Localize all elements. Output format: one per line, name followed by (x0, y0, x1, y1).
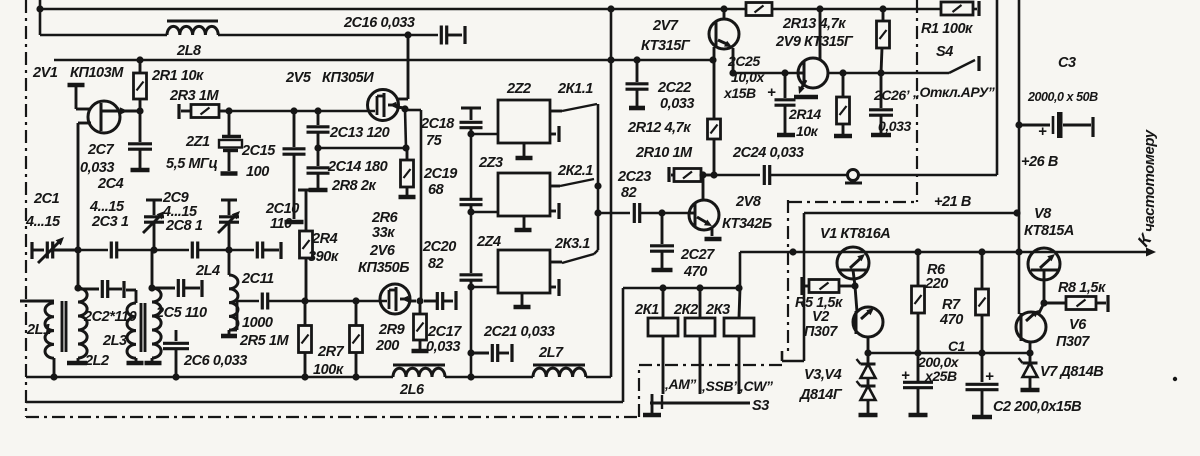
svg-text:2С23: 2С23 (617, 169, 651, 185)
label 2C7 value (80, 160, 114, 176)
connector jack AGC test point (845, 170, 862, 184)
wire antenna input line (32, 242, 44, 259)
capacitor C1 electrolytic (901, 353, 933, 415)
label V8 (1034, 206, 1052, 222)
wire relay return line y402 (26, 288, 623, 402)
svg-text:5,5 МГц: 5,5 МГц (166, 156, 217, 172)
svg-text:2С7: 2С7 (87, 142, 115, 158)
capacitor C3 electrolytic (1019, 112, 1093, 140)
capacitor 2C7 (128, 111, 152, 170)
label 2K2 (673, 302, 698, 318)
label 2C10 (265, 201, 299, 217)
label K (to meter) (1134, 230, 1156, 251)
label +26V (1021, 154, 1058, 170)
capacitor C2 electrolytic (966, 353, 999, 417)
svg-text:2К3.1: 2К3.1 (554, 236, 590, 252)
label D814G (798, 387, 843, 403)
label 2C16 0,033 (343, 15, 415, 31)
label 2C20 value (428, 256, 444, 272)
resistor R1 100k (941, 1, 979, 16)
svg-text:+21 В: +21 В (934, 194, 971, 210)
transformer core 1 (62, 301, 66, 352)
svg-text:2С27: 2С27 (680, 247, 715, 263)
capacitor 2C6 (163, 330, 189, 377)
junction dots +26V bus (1013, 121, 1022, 216)
wire chain 1-2 (470, 134, 473, 198)
label 2C9 (162, 190, 189, 206)
crystal 2Z1 (219, 114, 242, 174)
label 2C22 (657, 80, 691, 96)
label 2R4 (311, 231, 338, 247)
wire +26V rail (740, 251, 1152, 254)
resistor R8 (1044, 295, 1108, 312)
svg-text:2С4: 2С4 (97, 176, 124, 192)
label 2C26 (873, 87, 911, 103)
svg-text:2К3: 2К3 (705, 302, 730, 318)
wire choke feed bus (26, 376, 611, 379)
label +21V (934, 194, 971, 210)
label 2R6 (371, 210, 399, 226)
wire mixer input line y301 (237, 300, 259, 303)
inductor 2L6 (393, 365, 445, 377)
svg-text:„АМ”: „АМ” (661, 376, 696, 392)
svg-text:2R10 1М: 2R10 1М (635, 145, 693, 161)
label 2R7 (317, 344, 345, 360)
svg-text:П307: П307 (1056, 334, 1090, 350)
label 2K1 (634, 302, 659, 318)
wire IF output line y213 (598, 212, 630, 215)
resistor 2R5 (299, 301, 312, 377)
svg-text:1000: 1000 (242, 315, 273, 331)
svg-text:2К1: 2К1 (634, 302, 659, 318)
wire AGC line y73 left (733, 72, 798, 75)
junction dot first tank (150, 246, 157, 253)
svg-text:C2 200,0х15В: C2 200,0х15В (993, 399, 1081, 415)
wire 2L1 input stub (20, 300, 54, 303)
capacitor 2C9 (192, 242, 197, 259)
label 2C14 180 (327, 159, 388, 175)
resistor 2R3 (179, 104, 229, 119)
switch S4 (949, 56, 979, 73)
svg-text:100к: 100к (313, 362, 344, 378)
svg-text:110: 110 (270, 216, 292, 232)
label 2K3 (705, 302, 730, 318)
svg-text:С3: С3 (1058, 55, 1076, 71)
label 2L1 (26, 322, 51, 338)
svg-text:+: + (767, 84, 776, 101)
label KT815A (1024, 223, 1074, 239)
crystal filter 2Z4 (498, 250, 598, 307)
svg-text:470: 470 (939, 312, 963, 328)
svg-text:2Ζ1: 2Ζ1 (185, 134, 210, 150)
svg-text:2L7: 2L7 (538, 345, 564, 361)
wire to capacitor 2C16 (408, 34, 438, 37)
svg-text:10,0х: 10,0х (731, 69, 765, 85)
svg-text:КП305И: КП305И (322, 70, 374, 86)
label V6 (1069, 317, 1087, 333)
transistor V2 P307 (853, 307, 883, 353)
transistor V8 KT815A (1028, 248, 1060, 303)
label S3 (752, 398, 769, 414)
wire 2L8 feed line (40, 34, 406, 37)
wire oscillator gate line y111 (229, 110, 375, 113)
svg-text:2R14: 2R14 (788, 106, 821, 122)
label 2C4 (97, 176, 124, 192)
svg-text:2Ζ2: 2Ζ2 (506, 81, 531, 97)
svg-text:2С18: 2С18 (420, 116, 455, 132)
svg-text:2R5 1М: 2R5 1М (239, 333, 289, 349)
capacitor 2C20 (460, 275, 483, 287)
junction dot filter3 input (467, 283, 474, 290)
svg-text:+26 В: +26 В (1021, 154, 1058, 170)
label 2V7 (652, 18, 679, 34)
inductor 2L1 (45, 303, 54, 377)
svg-text:2К2.1: 2К2.1 (557, 163, 593, 179)
svg-text:V2: V2 (812, 309, 829, 325)
label 2Z2 (506, 81, 531, 97)
label C1 value1 (917, 354, 960, 370)
transistor 2V5 KP305I (368, 35, 409, 121)
svg-text:„SSB”: „SSB” (698, 378, 740, 394)
svg-text:+: + (985, 368, 994, 385)
transistor 2V9 KT315G (794, 9, 828, 97)
svg-text:2V8: 2V8 (735, 194, 762, 210)
label P307 V2 (804, 324, 838, 340)
label 2C15 (241, 143, 276, 159)
label 2C2*110 (83, 309, 137, 325)
svg-text:0,033: 0,033 (878, 118, 911, 134)
label 2C27 value (683, 264, 707, 280)
label 2C11 (241, 271, 274, 287)
capacitor 2C1 variable (38, 237, 78, 263)
svg-text:КП103М: КП103М (70, 65, 124, 81)
wire IF AGC line y175 (714, 174, 760, 177)
relay coil 2K1 (648, 288, 678, 394)
label 2R12 4,7k (627, 120, 691, 136)
label 2R7 value (313, 362, 344, 378)
svg-text:2R6: 2R6 (371, 210, 399, 226)
svg-text:R7: R7 (942, 297, 961, 313)
junction dots top bus (36, 5, 886, 12)
capacitor 2C4 (111, 242, 116, 259)
label 2C27 (680, 247, 715, 263)
svg-text:КТ815А: КТ815А (1024, 223, 1074, 239)
label KT315G 2V7 (641, 38, 691, 54)
svg-text:2R9: 2R9 (378, 322, 405, 338)
label 2C13 120 (329, 125, 390, 141)
capacitor 2C15 (283, 111, 306, 222)
svg-text:0,033: 0,033 (80, 160, 114, 176)
trimmer capacitor 2C3 (143, 200, 165, 250)
capacitor 2C14 (307, 148, 330, 190)
svg-text:2V7: 2V7 (652, 18, 679, 34)
capacitor 2C19 (460, 199, 483, 212)
resistor 2R1 (134, 60, 147, 111)
wire tuned line end (263, 242, 281, 259)
svg-text:V1 КТ816А: V1 КТ816А (820, 226, 890, 242)
label 2V8 (735, 194, 762, 210)
svg-text:V6: V6 (1069, 317, 1087, 333)
svg-text:2С21 0,033: 2С21 0,033 (483, 324, 555, 340)
label S4 (936, 44, 953, 60)
wire zener reference line y353 (868, 352, 1031, 355)
svg-text:2000,0 х 50В: 2000,0 х 50В (1027, 90, 1098, 104)
junction dots AGC line (729, 69, 788, 76)
relay coil 2K3 (724, 288, 754, 394)
label C1 (948, 338, 966, 354)
capacitor 2C5 (152, 279, 202, 297)
junction dots filter output riser (594, 182, 601, 216)
wire +26V vertical bus (1018, 0, 1021, 314)
label KT342B (722, 216, 772, 232)
label 2C25 (727, 53, 760, 69)
junction dot 2C21 tap (467, 349, 474, 356)
label 2R9 (378, 322, 405, 338)
svg-text:2С13 120: 2С13 120 (329, 125, 390, 141)
svg-text:2V6: 2V6 (369, 243, 396, 259)
label 2C1 (33, 191, 60, 207)
svg-text:КТ315Г: КТ315Г (641, 38, 691, 54)
capacitor 2C17 (424, 291, 456, 310)
label 2R8 2k (331, 178, 376, 194)
wire relay feed line (623, 287, 740, 290)
label SSB (698, 378, 740, 394)
svg-text:„CW”: „CW” (736, 378, 773, 394)
junction dot source bypass node (402, 144, 409, 151)
wire 2V5 source branches (405, 109, 421, 300)
inductor 2L7 (533, 365, 586, 377)
junction dots relay feed (659, 284, 742, 291)
junction dot V6 emitter node (1040, 299, 1047, 306)
junction dot filter2 input (467, 208, 474, 215)
transistor V6 P307 (1016, 305, 1046, 353)
svg-text:2R7: 2R7 (317, 344, 345, 360)
label 2C21 0,033 (483, 324, 555, 340)
wire tuned line segment 1 (78, 249, 108, 252)
resistor 2R9 (412, 301, 429, 351)
label 2C4 value (89, 199, 125, 215)
svg-text:2L2: 2L2 (84, 353, 109, 369)
switch S3 (643, 394, 750, 415)
wire source line y148 (318, 147, 406, 150)
wire AGC output line (770, 174, 847, 177)
label P307 V6 (1056, 334, 1090, 350)
junction dot second tank (225, 246, 232, 253)
capacitor 2C18 (460, 122, 483, 134)
svg-text:2С15: 2С15 (241, 143, 276, 159)
svg-text:2R3 1М: 2R3 1М (169, 88, 219, 104)
label 2C11 value (242, 315, 273, 331)
arrow to frequency meter (1146, 248, 1156, 257)
label 2C19 (423, 166, 457, 182)
resistor 2R8 (399, 148, 416, 197)
capacitor 2C25 electrolytic (767, 73, 796, 135)
power supply box solid border (782, 213, 804, 361)
svg-text:2V1: 2V1 (32, 65, 58, 81)
wire AGC line y73 right (828, 72, 949, 75)
svg-text:4...15: 4...15 (25, 214, 61, 230)
junction dot 2V1 drain node (136, 107, 143, 114)
svg-text:V3,V4: V3,V4 (804, 367, 842, 383)
transistor 2V8 KT342B (689, 175, 722, 239)
junction dot 2C27 tap (658, 209, 665, 216)
junction dot 2R3 right node (225, 107, 232, 114)
svg-text:2R4: 2R4 (311, 231, 338, 247)
label 2C26 value (878, 118, 911, 134)
label AM (661, 376, 696, 392)
board border dash-dot left edge (25, 0, 27, 417)
svg-text:+: + (901, 367, 910, 384)
label CW (736, 378, 773, 394)
junction dot antenna node (74, 246, 81, 253)
label 2C23 (617, 169, 651, 185)
junction dots reference line (864, 349, 1033, 356)
label 2R10 1M (635, 145, 693, 161)
svg-text:2R12 4,7к: 2R12 4,7к (627, 120, 691, 136)
junction dots AGC line right (839, 69, 884, 76)
label 2R6 value (372, 225, 395, 241)
svg-text:2С11: 2С11 (241, 271, 274, 287)
wire AGC to top edge (859, 0, 997, 175)
label 2K1.1 (557, 81, 593, 97)
capacitor 2C11 (262, 293, 267, 310)
label 2C22 value (660, 96, 694, 112)
svg-text:82: 82 (428, 256, 444, 272)
zener diodes V3 V4 D814G (857, 353, 878, 415)
label 2C17 value (426, 339, 460, 355)
svg-text:частотомеру: частотомеру (1141, 129, 1158, 232)
label 2L2 (84, 353, 109, 369)
resistor R6 (912, 252, 925, 353)
label 2V9 KT315G (775, 34, 854, 50)
junction dot 2V5 drain riser (404, 31, 411, 38)
label 2C18 (420, 116, 455, 132)
label 2C6 0,033 (183, 353, 247, 369)
label R7 value (939, 312, 963, 328)
junction dots feed bus (50, 373, 474, 380)
resistor 2R7 (350, 301, 363, 377)
label Otkl.ARU (912, 84, 995, 100)
svg-text:100: 100 (246, 164, 269, 180)
svg-text:0,033: 0,033 (660, 96, 694, 112)
junction dots collector line (699, 171, 717, 178)
svg-text:2С10: 2С10 (265, 201, 299, 217)
label 2Z1 freq (166, 156, 217, 172)
label R6 (927, 262, 946, 278)
zener diode V7 D814V (1019, 353, 1040, 390)
junction dot 2C5 tap (148, 284, 155, 291)
svg-text:2V5: 2V5 (285, 70, 312, 86)
svg-text:2Ζ3: 2Ζ3 (478, 155, 503, 171)
wire +21V line (804, 212, 1017, 215)
wire first-stage supply line y60 (54, 59, 713, 62)
partition dash-dot AGC box (789, 0, 918, 202)
partition dash-dot relay section (639, 365, 782, 417)
wire filter chain top stub (461, 108, 481, 120)
junction dot 2L2 top (74, 284, 81, 291)
svg-text:2С17: 2С17 (427, 324, 462, 340)
svg-text:2R8 2к: 2R8 2к (331, 178, 376, 194)
label 2C9 value (162, 204, 198, 220)
svg-text:КП350Б: КП350Б (358, 260, 409, 276)
svg-text:S3: S3 (752, 398, 769, 414)
wire filter3 input (471, 286, 498, 289)
wire to 2V8 base (640, 212, 689, 215)
label R5 1,5k (795, 295, 843, 311)
label C2 value (993, 399, 1081, 415)
capacitor 2C13 (307, 111, 330, 148)
svg-text:R1 100к: R1 100к (921, 21, 973, 37)
svg-text:S4: S4 (936, 44, 953, 60)
svg-text:2L6: 2L6 (399, 382, 425, 398)
label 2L6 (399, 382, 425, 398)
wire chain 3-down (470, 287, 473, 377)
capacitor 2C21 (471, 344, 512, 362)
capacitor 2C10 (257, 242, 262, 259)
junction dots gate line (290, 107, 321, 114)
capacitor 2C23 (634, 203, 639, 223)
svg-text:2С19: 2С19 (423, 166, 457, 182)
capacitor 2C24 (764, 165, 769, 185)
svg-text:2Ζ4: 2Ζ4 (476, 234, 501, 250)
svg-text:2С5 110: 2С5 110 (155, 305, 207, 321)
wire filter2 input (471, 211, 498, 214)
svg-text:68: 68 (428, 182, 445, 198)
svg-text:R8 1,5к: R8 1,5к (1058, 280, 1106, 296)
label R6 value (924, 276, 948, 292)
label R8 1,5k (1058, 280, 1106, 296)
label 2C19 value (428, 182, 445, 198)
svg-text:200: 200 (375, 338, 399, 354)
label C3 value (1027, 90, 1098, 104)
svg-text:2R13 4,7к: 2R13 4,7к (782, 16, 846, 32)
label 2R9 value (375, 338, 399, 354)
svg-text:2С22: 2С22 (657, 80, 691, 96)
wire top supply bus (40, 8, 977, 11)
capacitor 2C26 (869, 73, 893, 135)
label 2L3 (102, 333, 127, 349)
trimmer capacitor 2C8 (218, 200, 240, 250)
svg-text:х15В: х15В (723, 85, 756, 101)
svg-text:2С16 0,033: 2С16 0,033 (343, 15, 415, 31)
capacitor 2C27 (650, 213, 674, 270)
wire tuned line segment 2 (117, 249, 189, 252)
label 2L7 (538, 345, 564, 361)
label KP350B (358, 260, 409, 276)
wire filter1 input (471, 133, 498, 136)
label 2R3 1M (169, 88, 219, 104)
label 2C24 0,033 (732, 145, 804, 161)
junction dots supply line y60 (136, 56, 716, 63)
label KP305I (322, 70, 374, 86)
junction dot filter1 input (467, 130, 474, 137)
transistor V1 KT816A (837, 247, 869, 312)
label V2 (812, 309, 829, 325)
wire chain 2-3 (470, 212, 473, 273)
resistor R7 (976, 252, 989, 353)
label 2C17 (427, 324, 462, 340)
svg-text:2С6 0,033: 2С6 0,033 (183, 353, 247, 369)
svg-text:2С20: 2С20 (422, 239, 456, 255)
transformer core 2 (141, 303, 145, 352)
label 2Z4 (476, 234, 501, 250)
svg-text:2С14 180: 2С14 180 (327, 159, 388, 175)
svg-text:V8: V8 (1034, 206, 1052, 222)
label R1 100k (921, 21, 973, 37)
capacitor 2C22 (626, 59, 649, 108)
label 2V6 name (369, 243, 396, 259)
junction dot V2 base (851, 282, 858, 289)
